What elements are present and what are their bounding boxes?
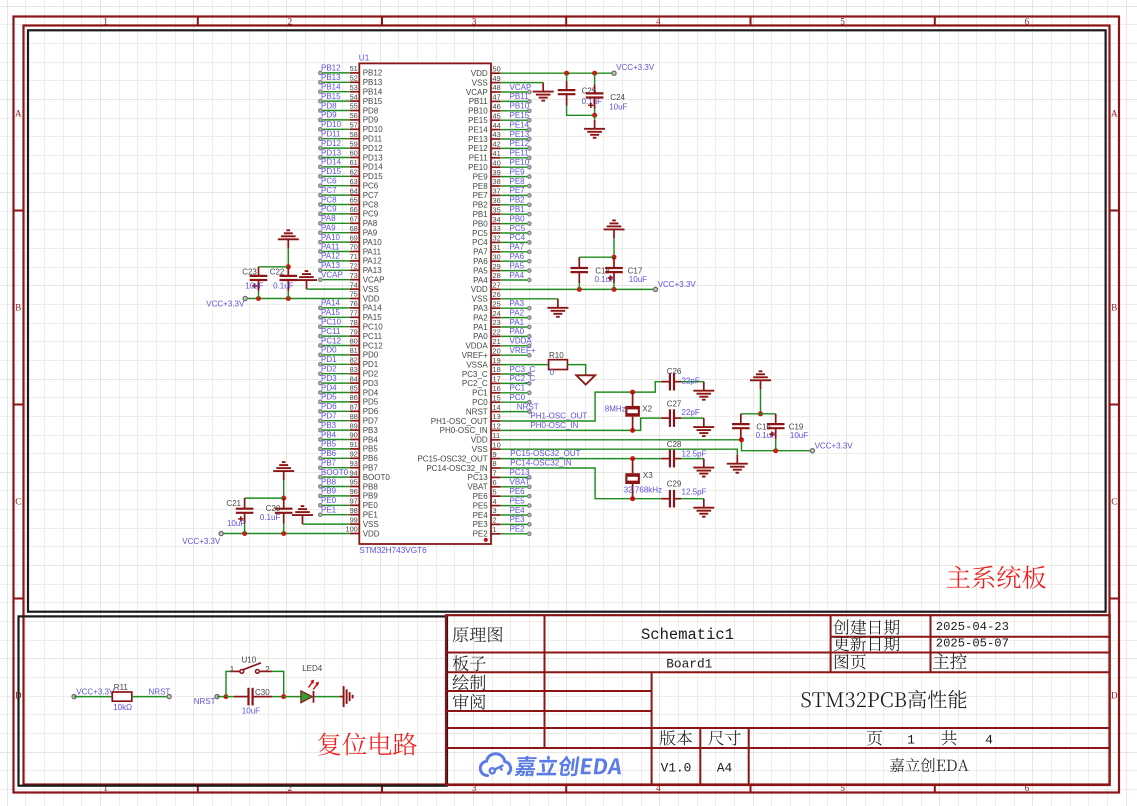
U1 pin 30 (PA6) right	[473, 252, 501, 266]
svg-text:VDD: VDD	[471, 285, 488, 294]
junction	[630, 428, 635, 433]
svg-text:71: 71	[350, 252, 358, 261]
op-amp U1 body: IC STM32H743VGT6	[359, 63, 491, 544]
svg-text:54: 54	[350, 92, 358, 101]
U1 pin 56 (PD9) left	[350, 111, 379, 125]
node VBAT net label	[510, 478, 530, 487]
wire net PD10 pin 57	[319, 128, 350, 132]
U1 pin 49 (VSS) right	[472, 74, 501, 88]
title text 图页	[835, 654, 866, 669]
svg-text:PE8: PE8	[473, 182, 489, 191]
svg-text:PE13: PE13	[510, 130, 530, 139]
node PE3 net label	[510, 515, 526, 524]
svg-text:VSS: VSS	[363, 285, 379, 294]
svg-text:BOOT0: BOOT0	[321, 468, 349, 477]
title value A4	[717, 760, 733, 775]
node PE11 net label	[510, 149, 530, 158]
U1 pin 24 (PA2) right	[473, 309, 501, 323]
svg-text:58: 58	[350, 130, 358, 139]
svg-text:VDD: VDD	[363, 294, 380, 303]
U1 pin 22 (PA0) right	[473, 328, 501, 342]
capacitor C24 10uF (polarized)	[586, 73, 628, 115]
title text 审阅	[453, 694, 486, 710]
svg-text:84: 84	[350, 374, 358, 383]
svg-text:PA2: PA2	[510, 308, 525, 317]
node PB4 net label	[321, 430, 337, 439]
title text STM32PCB高性能	[801, 690, 966, 709]
U1 pin 15 (PC0) right	[472, 393, 501, 407]
wire cluster top rail	[741, 413, 776, 415]
wire net PB12 pin 51	[319, 71, 350, 75]
svg-text:21: 21	[493, 337, 501, 346]
svg-text:2025-05-07: 2025-05-07	[936, 636, 1009, 650]
capacitor C30 10uF	[226, 688, 284, 716]
junction	[256, 296, 261, 301]
svg-text:22pF: 22pF	[682, 408, 700, 417]
node PB5 net label	[321, 440, 337, 449]
junction	[630, 456, 635, 461]
node VREF+ net label	[510, 346, 536, 355]
U1 pin 52 (PB13) left	[350, 74, 383, 88]
svg-text:C29: C29	[667, 479, 682, 488]
svg-text:PD8: PD8	[321, 101, 337, 110]
svg-text:83: 83	[350, 365, 358, 374]
svg-text:PB10: PB10	[468, 107, 488, 116]
node NRST net label	[517, 402, 539, 411]
U1 pin 57 (PD10) left	[350, 121, 384, 135]
svg-text:PD0: PD0	[321, 346, 337, 355]
wire net PC4 pin 32	[500, 241, 531, 245]
svg-text:PE15: PE15	[468, 116, 488, 125]
node PD14 net label	[321, 158, 342, 167]
U1 pin 9 (PC15-OSC32_OUT) right	[417, 450, 500, 464]
svg-text:C23: C23	[242, 267, 257, 276]
node PA9 net label	[321, 224, 336, 233]
svg-text:4: 4	[493, 497, 497, 506]
svg-text:PA15: PA15	[321, 308, 341, 317]
title value 2025-05-07	[936, 636, 1009, 650]
title text 板子	[453, 655, 486, 671]
title text 更新日期	[834, 636, 900, 652]
svg-text:PE0: PE0	[321, 496, 337, 505]
svg-text:VSS: VSS	[472, 295, 488, 304]
svg-text:PD15: PD15	[321, 167, 342, 176]
wire net PD1 pin 82	[319, 363, 350, 367]
svg-text:PA3: PA3	[510, 299, 525, 308]
U1 pin 89 (PB3) left	[350, 421, 379, 435]
svg-text:5: 5	[840, 17, 845, 27]
svg-text:8MHz: 8MHz	[605, 404, 626, 413]
wire net PE11 pin 41	[500, 156, 531, 160]
svg-text:2: 2	[288, 17, 293, 27]
ground at VSS pin10	[727, 455, 748, 473]
wire C30 to LED4	[284, 696, 301, 698]
wire net PD3 pin 84	[319, 381, 350, 385]
svg-text:V1.0: V1.0	[661, 760, 692, 775]
wire PH1-OSC_OUT pin13	[500, 382, 661, 421]
svg-text:PE2: PE2	[473, 530, 489, 539]
svg-text:C22: C22	[270, 267, 285, 276]
junction	[612, 255, 617, 260]
ground triangle (VSSA)	[576, 375, 595, 384]
svg-text:PD1: PD1	[321, 355, 337, 364]
svg-text:53: 53	[350, 83, 358, 92]
node PE14 net label	[510, 120, 530, 129]
node PC12 net label	[321, 336, 342, 345]
wire net PD9 pin 56	[319, 118, 350, 122]
svg-text:2025-04-23: 2025-04-23	[936, 620, 1009, 634]
svg-text:PE9: PE9	[473, 172, 489, 181]
svg-text:PA14: PA14	[321, 299, 341, 308]
node PD0 net label	[321, 346, 337, 355]
node PA14 net label	[321, 299, 341, 308]
U1 pin 69 (PA10) left	[350, 233, 383, 247]
node PE9 net label	[510, 167, 526, 176]
caption main system board (Chinese)	[947, 566, 1046, 589]
capacitor C26 22pF	[661, 367, 704, 391]
svg-text:0.1uF: 0.1uF	[273, 282, 294, 291]
svg-text:10uF: 10uF	[227, 519, 245, 528]
node PA2 net label	[510, 308, 525, 317]
svg-text:PD10: PD10	[363, 125, 384, 134]
node PB14 net label	[321, 83, 341, 92]
svg-text:PC9: PC9	[363, 210, 379, 219]
capacitor C27 22pF	[661, 400, 704, 427]
U1 pin 78 (PC10) left	[350, 318, 384, 332]
svg-text:62: 62	[350, 168, 358, 177]
svg-text:VCAP: VCAP	[321, 271, 343, 280]
wire net PE3 pin 2	[500, 523, 531, 527]
svg-text:PC14-OSC32_IN: PC14-OSC32_IN	[426, 464, 488, 473]
junction	[612, 287, 617, 292]
node PA5 net label	[510, 261, 525, 270]
wire net PB9 pin 96	[319, 494, 350, 498]
ground (reset circuit, rotated)	[340, 686, 353, 707]
wire net PD13 pin 60	[319, 156, 350, 160]
svg-text:8: 8	[493, 459, 497, 468]
wire VDD pin11	[500, 440, 812, 451]
U1 pin 74 (VSS) left	[350, 280, 379, 294]
U1 pin 100 (VDD) left	[345, 525, 379, 539]
junction	[739, 437, 744, 442]
svg-text:0.1uF: 0.1uF	[260, 513, 281, 522]
wire net PB3 pin 89	[319, 428, 350, 432]
wire net PA15 pin 77	[319, 316, 350, 320]
svg-text:U10: U10	[242, 655, 257, 664]
svg-text:PA12: PA12	[363, 257, 383, 266]
svg-text:PA8: PA8	[321, 214, 336, 223]
svg-text:50: 50	[493, 64, 501, 73]
svg-text:PC5: PC5	[510, 224, 526, 233]
wire net PE14 pin 44	[500, 128, 531, 132]
junction	[773, 448, 778, 453]
svg-text:1: 1	[907, 733, 915, 748]
svg-text:20: 20	[493, 346, 501, 355]
svg-text:PD9: PD9	[321, 111, 337, 120]
U1 pin 40 (PE10) right	[468, 158, 501, 172]
U1 pin 71 (PA12) left	[350, 252, 383, 266]
svg-text:PE11: PE11	[510, 149, 530, 158]
svg-text:25: 25	[493, 299, 501, 308]
svg-text:PB6: PB6	[321, 449, 337, 458]
svg-text:PC6: PC6	[363, 182, 379, 191]
U1 pin 58 (PD11) left	[350, 130, 383, 144]
svg-text:PB13: PB13	[321, 73, 341, 82]
U1 pin 1 (PE2) right	[473, 525, 501, 539]
svg-text:31: 31	[493, 243, 501, 252]
wire net PE12 pin 42	[500, 147, 531, 151]
U1 pin 51 (PB12) left	[350, 64, 383, 78]
node PE6 net label	[510, 487, 526, 496]
svg-text:16: 16	[493, 384, 501, 393]
wire net PA4 pin 28	[500, 278, 531, 282]
svg-text:PB3: PB3	[321, 421, 337, 430]
node PE4 net label	[510, 506, 526, 515]
svg-text:37: 37	[493, 187, 501, 196]
wire PH0-OSC_IN pin12	[500, 418, 661, 430]
U1 pin 37 (PE7) right	[473, 187, 501, 201]
logo text 嘉立创EDA (blue italic)	[514, 756, 623, 776]
svg-text:PD11: PD11	[321, 130, 341, 139]
wire net PD5 pin 86	[319, 400, 350, 404]
svg-text:PB7: PB7	[363, 464, 379, 473]
U1 pin 97 (PE0) left	[350, 497, 379, 511]
U1 pin 45 (PE15) right	[468, 111, 501, 125]
svg-text:PA1: PA1	[473, 323, 488, 332]
svg-text:PC13: PC13	[468, 473, 489, 482]
wire net PC2_C pin 17	[500, 382, 531, 386]
svg-text:80: 80	[350, 337, 358, 346]
wire net PC9 pin 66	[319, 212, 350, 216]
svg-text:PB15: PB15	[321, 92, 341, 101]
svg-text:76: 76	[350, 299, 358, 308]
node PA3 net label	[510, 299, 525, 308]
svg-text:73: 73	[350, 271, 358, 280]
U1 pin 35 (PB1) right	[473, 205, 501, 219]
svg-text:PE12: PE12	[468, 144, 488, 153]
node VDDA net label	[510, 337, 533, 346]
U1 pin 72 (PA13) left	[350, 262, 383, 276]
node PC13 net label	[510, 468, 531, 477]
title text 原理图	[453, 627, 503, 643]
svg-text:19: 19	[493, 356, 501, 365]
title text 绘制	[453, 674, 486, 690]
svg-text:57: 57	[350, 121, 358, 130]
svg-text:PD12: PD12	[363, 144, 384, 153]
svg-text:10: 10	[493, 440, 501, 449]
wire PC14-OSC32_IN pin8	[500, 468, 661, 499]
U1 pin 65 (PC8) left	[350, 196, 379, 210]
svg-text:14: 14	[493, 403, 501, 412]
U1 pin 67 (PA8) left	[350, 215, 378, 229]
svg-text:74: 74	[350, 280, 358, 289]
wire LED4 to ground	[314, 696, 339, 698]
node PB3 net label	[321, 421, 337, 430]
svg-text:PA11: PA11	[321, 242, 340, 251]
svg-text:PC0: PC0	[510, 393, 526, 402]
wire C25 bottom to C24 bottom	[567, 106, 595, 116]
wire up to switch U10	[226, 671, 240, 696]
svg-text:52: 52	[350, 74, 358, 83]
svg-text:C: C	[15, 497, 21, 507]
U1 pin 2 (PE3) right	[473, 516, 501, 530]
svg-text:PH1-OSC_OUT: PH1-OSC_OUT	[431, 417, 488, 426]
junction	[286, 296, 291, 301]
power flag VCC+3.3V (bottom left)	[182, 531, 223, 546]
svg-text:PC4: PC4	[472, 238, 488, 247]
svg-text:C28: C28	[667, 440, 682, 449]
svg-text:89: 89	[350, 421, 358, 430]
wire net PE13 pin 43	[500, 137, 531, 141]
svg-text:PB1: PB1	[473, 210, 489, 219]
node PD8 net label	[321, 101, 337, 110]
svg-text:66: 66	[350, 205, 358, 214]
junction	[286, 264, 291, 269]
svg-text:29: 29	[493, 262, 501, 271]
node PB15 net label	[321, 92, 341, 101]
U1 pin 95 (PB8) left	[350, 478, 379, 492]
svg-text:PD14: PD14	[363, 163, 384, 172]
svg-text:70: 70	[350, 243, 358, 252]
U1 pin 75 (VDD) left	[350, 290, 380, 304]
wire net PC12 pin 80	[319, 344, 350, 348]
node PE7 net label	[510, 186, 526, 195]
svg-text:VDDA: VDDA	[465, 342, 488, 351]
U1 pin 77 (PA15) left	[350, 309, 383, 323]
wire net PB11 pin 47	[500, 100, 531, 104]
svg-text:PE8: PE8	[510, 177, 526, 186]
wire net PA13 pin 72	[319, 269, 350, 273]
svg-text:48: 48	[493, 83, 501, 92]
U1 pin 63 (PC6) left	[350, 177, 379, 191]
junction	[758, 411, 763, 416]
svg-text:R10: R10	[549, 351, 564, 360]
svg-text:VREF+: VREF+	[462, 351, 488, 360]
svg-text:30: 30	[493, 252, 501, 261]
U1 pin 93 (PB7) left	[350, 459, 379, 473]
power flag VCC+3.3V (bottom right)	[810, 441, 853, 453]
U1 pin 39 (PE9) right	[473, 168, 501, 182]
svg-text:1: 1	[493, 525, 497, 534]
ground at VSS pin99	[292, 506, 313, 524]
svg-text:46: 46	[493, 102, 501, 111]
caption reset circuit (Chinese)	[318, 732, 417, 755]
node PA11 net label	[321, 242, 340, 251]
svg-text:86: 86	[350, 393, 358, 402]
svg-text:27: 27	[493, 281, 501, 290]
node VCAP net label	[510, 83, 532, 92]
U1 pin 33 (PC5) right	[472, 224, 501, 238]
svg-text:PA2: PA2	[473, 313, 488, 322]
svg-text:C: C	[1111, 497, 1117, 507]
node PE12 net label	[510, 139, 530, 148]
svg-text:2: 2	[265, 665, 270, 674]
svg-text:PC11: PC11	[363, 332, 383, 341]
svg-text:PE1: PE1	[321, 506, 337, 515]
wire net VREF+ pin 20	[500, 353, 531, 357]
svg-text:PC4: PC4	[510, 233, 526, 242]
wire net NRST pin 14	[500, 410, 531, 414]
svg-text:PE1: PE1	[363, 511, 379, 520]
U1 pin 36 (PB2) right	[473, 196, 501, 210]
U1 pin 11 (VDD) right	[471, 431, 501, 445]
svg-text:12.5pF: 12.5pF	[682, 488, 707, 497]
U1 pin 3 (PE4) right	[473, 506, 501, 520]
svg-text:PA15: PA15	[363, 313, 383, 322]
U1 pin 86 (PD5) left	[350, 393, 379, 407]
node PC11 net label	[321, 327, 341, 336]
wire net PA12 pin 71	[319, 259, 350, 263]
svg-text:PD10: PD10	[321, 120, 342, 129]
svg-text:PC13: PC13	[510, 468, 531, 477]
title value Board1	[666, 656, 712, 671]
U1 pin 18 (PC3_C) right	[462, 365, 501, 379]
svg-text:VCAP: VCAP	[510, 83, 532, 92]
U1 pin 64 (PC7) left	[350, 186, 379, 200]
ground at VSS pin74	[296, 271, 317, 289]
wire net PC0 pin 15	[500, 400, 531, 404]
node PD3 net label	[321, 374, 337, 383]
wire net PB14 pin 53	[319, 90, 350, 94]
svg-text:PB4: PB4	[363, 435, 379, 444]
svg-text:VSS: VSS	[472, 445, 488, 454]
svg-text:67: 67	[350, 215, 358, 224]
wire net PA8 pin 67	[319, 222, 350, 226]
svg-text:PE4: PE4	[510, 506, 526, 515]
wire net PA14 pin 76	[319, 306, 350, 310]
U1 pin 84 (PD3) left	[350, 374, 379, 388]
wire net VCAP pin 48	[500, 90, 531, 94]
U1 pin 73 (VCAP) left	[350, 271, 385, 285]
U1 pin 99 (VSS) left	[350, 515, 379, 529]
svg-text:BOOT0: BOOT0	[363, 473, 391, 482]
ground after C26	[693, 382, 714, 400]
svg-text:98: 98	[350, 506, 358, 515]
node PA0 net label	[510, 327, 525, 336]
U1 pin 17 (PC2_C) right	[462, 375, 501, 389]
wire NRST to junction	[217, 696, 226, 698]
node PA7 net label	[510, 243, 525, 252]
svg-text:PE2: PE2	[510, 525, 526, 534]
svg-text:17: 17	[493, 375, 501, 384]
wire net PC1 pin 16	[500, 391, 531, 395]
svg-text:PB14: PB14	[321, 83, 341, 92]
svg-text:60: 60	[350, 149, 358, 158]
svg-text:32.768kHz: 32.768kHz	[624, 485, 662, 494]
svg-text:1: 1	[230, 665, 235, 674]
node PC14-OSC32_IN net label	[510, 459, 572, 468]
U1 pin 82 (PD1) left	[350, 356, 379, 370]
wire net PE8 pin 38	[500, 184, 531, 188]
U1 pin 6 (VBAT) right	[467, 478, 500, 492]
wire net PE5 pin 4	[500, 504, 531, 508]
title value Schematic1	[641, 626, 734, 644]
svg-text:3: 3	[472, 17, 477, 27]
wire net PA10 pin 69	[319, 240, 350, 244]
svg-text:VCC+3.3V: VCC+3.3V	[76, 687, 115, 696]
capacitor C21 10uF (polarized)	[226, 498, 253, 533]
title value 2025-04-23	[936, 620, 1009, 634]
U1 pin 68 (PA9) left	[350, 224, 378, 238]
svg-text:PB12: PB12	[321, 64, 341, 73]
svg-text:81: 81	[350, 346, 358, 355]
U1 pin 10 (VSS) right	[472, 440, 501, 454]
svg-text:VCC+3.3V: VCC+3.3V	[658, 280, 697, 289]
svg-text:PB10: PB10	[510, 102, 530, 111]
svg-text:NRST: NRST	[149, 687, 171, 696]
svg-text:PA9: PA9	[363, 229, 378, 238]
svg-text:0.1uF: 0.1uF	[756, 431, 777, 440]
